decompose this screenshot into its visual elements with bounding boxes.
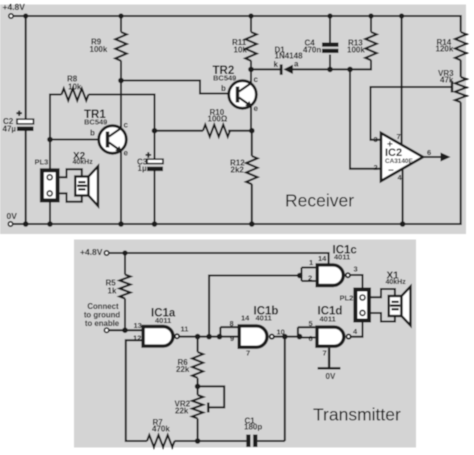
- svg-text:a: a: [294, 60, 299, 69]
- svg-text:4011: 4011: [320, 315, 336, 324]
- svg-text:0V: 0V: [326, 372, 336, 381]
- svg-text:8: 8: [230, 319, 234, 328]
- svg-text:+4.8V: +4.8V: [3, 2, 26, 12]
- svg-text:5: 5: [309, 319, 313, 328]
- svg-text:100k: 100k: [347, 46, 365, 55]
- svg-text:b: b: [221, 84, 226, 93]
- svg-text:1µ: 1µ: [138, 164, 147, 173]
- svg-text:120k: 120k: [436, 45, 454, 54]
- svg-text:k: k: [274, 60, 279, 69]
- svg-text:470k: 470k: [152, 425, 170, 434]
- svg-text:1k: 1k: [108, 287, 117, 296]
- svg-text:3: 3: [354, 265, 358, 274]
- svg-text:6: 6: [309, 334, 313, 343]
- svg-text:Transmitter: Transmitter: [313, 405, 401, 425]
- svg-text:PL2: PL2: [340, 294, 354, 303]
- svg-text:10: 10: [277, 328, 285, 337]
- svg-text:1N4148: 1N4148: [275, 52, 304, 61]
- svg-text:4011: 4011: [155, 316, 171, 325]
- svg-text:12: 12: [133, 334, 141, 343]
- svg-text:7: 7: [323, 349, 327, 358]
- svg-text:0V: 0V: [7, 211, 18, 221]
- svg-text:to enable: to enable: [85, 319, 120, 328]
- svg-text:100Ω: 100Ω: [208, 115, 228, 124]
- svg-text:22k: 22k: [175, 407, 189, 416]
- svg-text:47µ: 47µ: [3, 125, 17, 134]
- svg-text:c: c: [124, 121, 129, 130]
- svg-text:4011: 4011: [256, 314, 272, 323]
- svg-text:Receiver: Receiver: [285, 191, 354, 211]
- svg-text:e: e: [124, 149, 129, 158]
- svg-text:c: c: [254, 75, 259, 84]
- svg-text:13: 13: [134, 321, 142, 330]
- svg-text:6: 6: [427, 148, 431, 157]
- svg-text:470n: 470n: [303, 46, 321, 55]
- svg-text:CA3140E: CA3140E: [385, 158, 413, 165]
- svg-text:to ground: to ground: [84, 311, 121, 320]
- svg-text:3: 3: [374, 135, 378, 144]
- svg-text:1: 1: [309, 258, 313, 267]
- svg-text:14: 14: [241, 314, 250, 323]
- svg-text:10k: 10k: [234, 46, 248, 55]
- svg-text:9: 9: [230, 334, 234, 343]
- svg-text:e: e: [254, 104, 259, 113]
- svg-text:7: 7: [246, 349, 250, 358]
- svg-text:100k: 100k: [90, 45, 108, 54]
- svg-text:11: 11: [181, 325, 189, 334]
- svg-text:4011: 4011: [334, 253, 350, 262]
- svg-text:2k2: 2k2: [231, 166, 245, 175]
- svg-text:+: +: [387, 140, 393, 151]
- svg-text:2: 2: [308, 274, 312, 283]
- svg-text:BC549: BC549: [84, 118, 107, 127]
- svg-text:7: 7: [397, 132, 401, 141]
- svg-text:10k: 10k: [68, 83, 82, 92]
- svg-text:14: 14: [318, 254, 327, 263]
- svg-text:2: 2: [374, 163, 378, 172]
- svg-text:b: b: [90, 129, 95, 138]
- svg-text:PL3: PL3: [35, 158, 49, 167]
- svg-text:180p: 180p: [244, 423, 262, 432]
- svg-text:40kHz: 40kHz: [73, 159, 94, 166]
- svg-text:47k: 47k: [440, 76, 454, 85]
- svg-text:BC549: BC549: [213, 74, 236, 83]
- svg-text:−: −: [388, 166, 394, 177]
- svg-text:+4.8V: +4.8V: [80, 247, 103, 257]
- svg-text:22k: 22k: [176, 365, 190, 374]
- svg-text:40kHz: 40kHz: [386, 279, 407, 286]
